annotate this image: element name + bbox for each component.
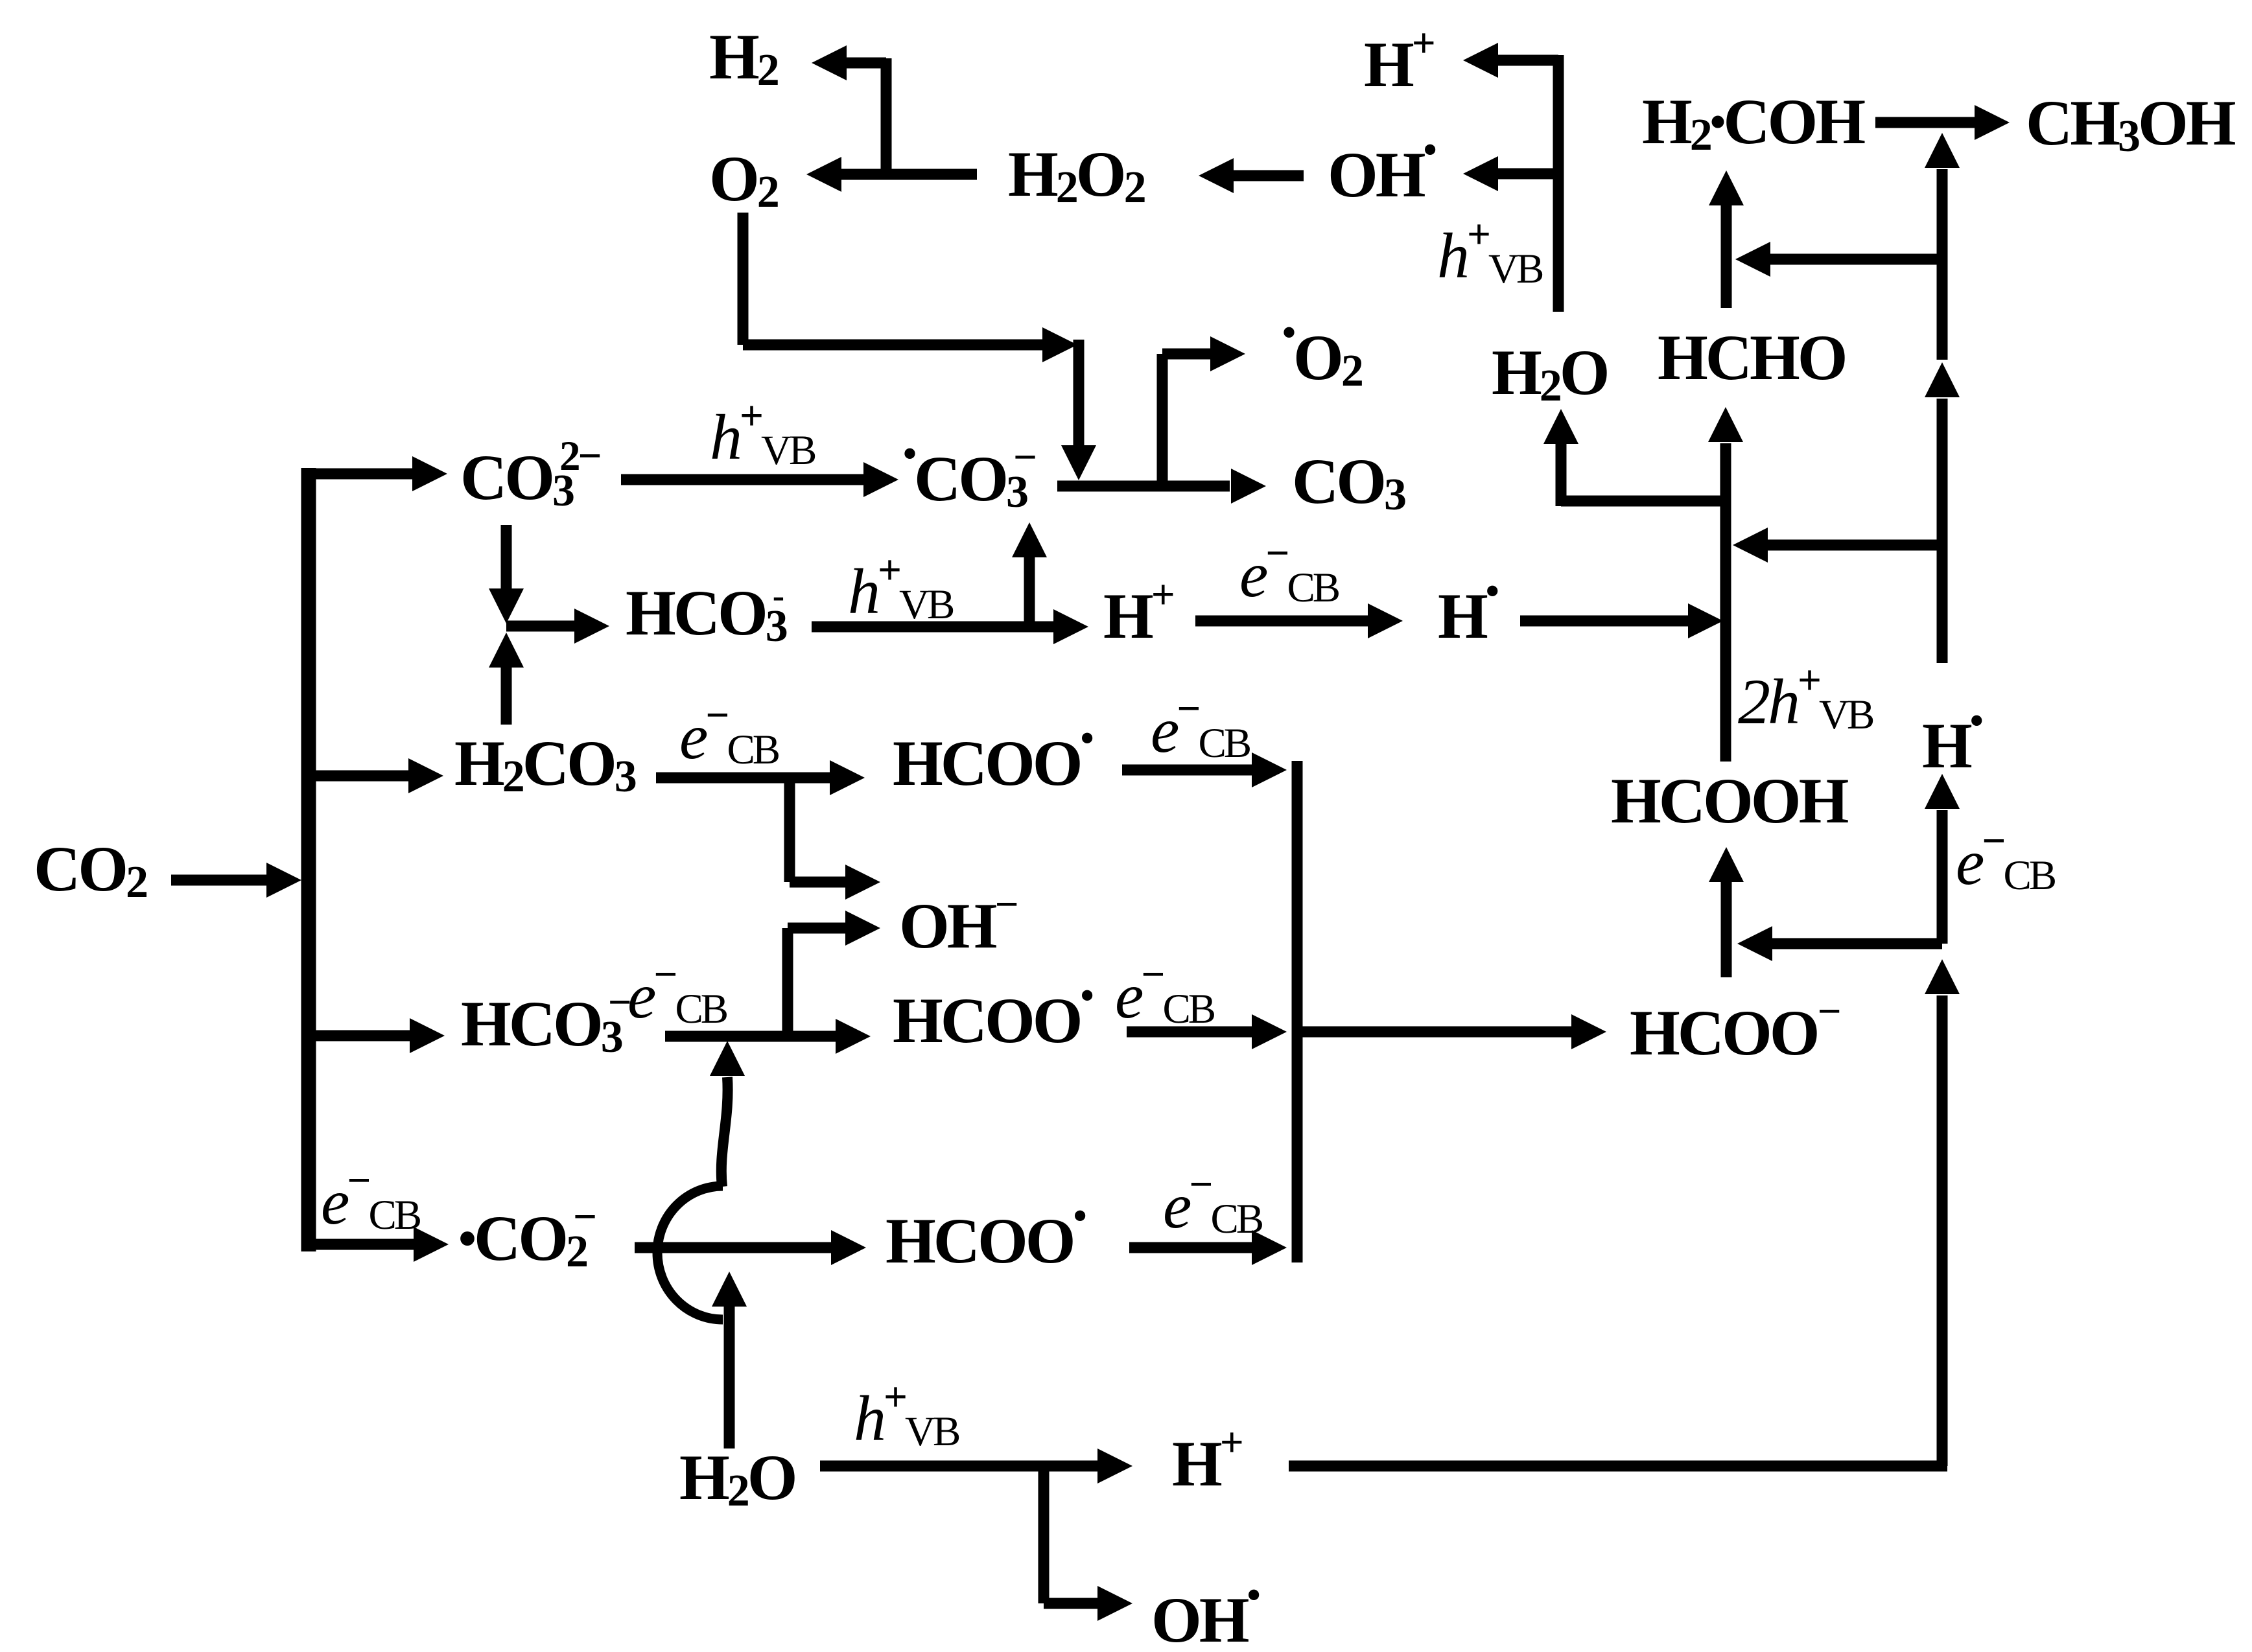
- svg-text:HCOO•​: HCOO•​: [893, 974, 1093, 1056]
- wire vertical from H+ line: [1937, 995, 1948, 1466]
- wire shaft of up arrow: [501, 668, 512, 725]
- wire arrow to superoxide O2: [1162, 349, 1210, 360]
- wire fork vertical down: [1038, 1466, 1050, 1603]
- wire arrow HCOO radical to bracket (row3): [1122, 765, 1252, 776]
- wire arrow fork to OH radical (bottom): [1044, 1598, 1097, 1609]
- wire long H+ horizontal: [1289, 1461, 1947, 1472]
- wire arrow up to HCOOH: [1721, 882, 1732, 977]
- wire arrow H2O up: [724, 1307, 735, 1448]
- wire arrow OH radical to H2O2: [1234, 170, 1304, 181]
- wire O2 down: [738, 213, 749, 345]
- wire branch up to OH-: [782, 928, 793, 1036]
- wire arrow up to H2.COH: [1721, 205, 1732, 308]
- wire trunk branch to CO2 radical: [309, 1239, 414, 1250]
- wire arrow to OH- lower: [788, 923, 845, 934]
- wire arrow down onto CO3 radical line: [1073, 340, 1085, 445]
- svg-text:HCO3​-​: HCO3​-​: [626, 576, 787, 651]
- wire arrow H2O2 to O2: [841, 169, 977, 180]
- wire vertical H2O to fork: [1553, 55, 1564, 312]
- wire arrow H2O to H+ (bottom): [820, 1461, 1097, 1472]
- svg-text:•​CO2​−​: •​CO2​−​: [458, 1194, 595, 1277]
- wire arrow bracket to HCOO-: [1297, 1027, 1571, 1038]
- svg-text:HCOOH: HCOOH: [1611, 765, 1849, 837]
- wire arrow right column to HCHO column: [1768, 540, 1942, 551]
- wire arrow HCOO radical to bracket (row4): [1127, 1027, 1252, 1038]
- wire arrow O2 path right: [743, 340, 1042, 351]
- wire arc hop: [657, 1186, 723, 1320]
- wire arrow HCO3- to H+: [812, 622, 1053, 633]
- wire arrow CO3 2- down: [501, 525, 512, 588]
- wire arrow H2O2 to H2: [847, 58, 886, 69]
- svg-text:H2​CO3​: H2​CO3​: [454, 727, 636, 802]
- arrowhead up of reverse arrow: [489, 633, 524, 668]
- wire junction line to CO3: [1057, 481, 1230, 492]
- arrowhead up from H+ line: [1925, 959, 1960, 994]
- wire bracket vertical: [1292, 761, 1303, 1262]
- wire arrow HCO3- to HCOO radical: [665, 1031, 836, 1042]
- wire arrow to HCO3-: [506, 621, 574, 632]
- svg-text:OH•​: OH•​: [1151, 1574, 1260, 1652]
- wire arrow CO3 2- to CO3 radical: [621, 474, 863, 485]
- arrowhead up under CH3OH arrow: [1925, 133, 1960, 168]
- svg-text:•​CO3​−​: •​CO3​−​: [903, 432, 1035, 517]
- arrowhead S-curve up: [710, 1041, 745, 1076]
- wire arrow H2CO3 to HCOO radical: [656, 773, 830, 784]
- wire arrow fork to H+: [1498, 55, 1558, 66]
- arrowhead up at HCHO: [1708, 407, 1743, 442]
- svg-text:HCOO•​: HCOO•​: [886, 1194, 1086, 1277]
- svg-text:HCHO: HCHO: [1658, 321, 1846, 393]
- wire arrow right column to H2.COH arrow: [1770, 254, 1942, 265]
- wire right column to H radical: [1937, 810, 1948, 944]
- wire right column upper segment: [1937, 169, 1948, 360]
- svg-text:H2​•​COH: H2​•​COH: [1642, 86, 1865, 160]
- wire trunk branch to CO3 2-: [301, 469, 412, 480]
- wire S-curve to HCO3- row: [721, 1077, 728, 1187]
- wire branch down to OH-: [784, 778, 795, 882]
- wire branch left to H2O: [1561, 496, 1726, 507]
- wire arrow right column to HCOOH arrow: [1772, 938, 1942, 949]
- wire arrow H2.COH to CH3OH: [1875, 117, 1975, 128]
- arrowhead up mid: [1925, 362, 1960, 397]
- arrowhead to CO3: [1231, 469, 1266, 504]
- wire vertical H2O2 fork: [881, 58, 892, 174]
- wire branch up: [1157, 354, 1168, 486]
- wire trunk vertical: [301, 468, 316, 1251]
- wire arrow HCOO radical to bracket (row5): [1129, 1242, 1252, 1253]
- wire right column from H radical up: [1937, 399, 1948, 663]
- wire arrow H radical to HCHO column: [1520, 616, 1688, 627]
- wire arrow up to CO3 radical: [1024, 557, 1035, 627]
- svg-text:OH•​: OH•​: [1328, 128, 1436, 211]
- svg-text:HCOO•​: HCOO•​: [893, 717, 1093, 799]
- wire arrow CO2 to trunk: [171, 875, 266, 886]
- wire arrow fork to OH radical: [1498, 169, 1558, 180]
- svg-text:HCOO−​: HCOO−​: [1630, 988, 1840, 1069]
- wire arrow H+ to H radical: [1195, 616, 1368, 627]
- arrowhead up at H radical: [1925, 774, 1960, 809]
- wire arrow CO2 radical to HCOO radical: [635, 1242, 831, 1253]
- wire 2h column vertical: [1720, 443, 1731, 762]
- wire trunk branch to HCO3-: [301, 1030, 410, 1041]
- wire trunk branch to H2CO3: [301, 771, 408, 782]
- wire arrow to OH- upper: [790, 877, 845, 888]
- wire arrow up to H2O: [1556, 444, 1567, 506]
